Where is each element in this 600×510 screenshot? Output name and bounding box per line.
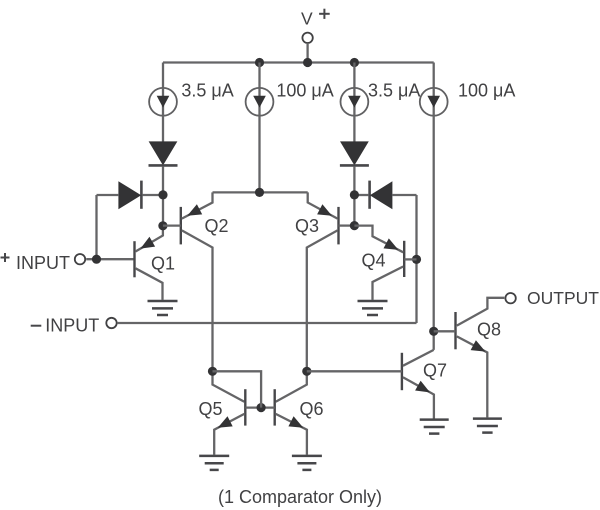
svg-text:3.5 μA: 3.5 μA [368,80,420,100]
svg-text:Q6: Q6 [300,399,324,419]
svg-text:Q8: Q8 [477,320,501,340]
svg-text:V: V [301,9,313,29]
svg-text:OUTPUT: OUTPUT [527,288,599,308]
svg-text:100 μA: 100 μA [458,80,515,100]
svg-text:Q1: Q1 [151,254,175,274]
svg-text:Q7: Q7 [423,360,447,380]
svg-text:Q3: Q3 [295,216,319,236]
svg-text:100 μA: 100 μA [276,80,333,100]
svg-text:INPUT: INPUT [16,253,70,273]
svg-text:(1 Comparator Only): (1 Comparator Only) [218,487,382,507]
svg-text:Q5: Q5 [199,399,223,419]
svg-text:3.5 μA: 3.5 μA [181,80,233,100]
svg-text:Q4: Q4 [362,250,386,270]
svg-text:INPUT: INPUT [45,316,99,336]
svg-text:Q2: Q2 [205,216,229,236]
